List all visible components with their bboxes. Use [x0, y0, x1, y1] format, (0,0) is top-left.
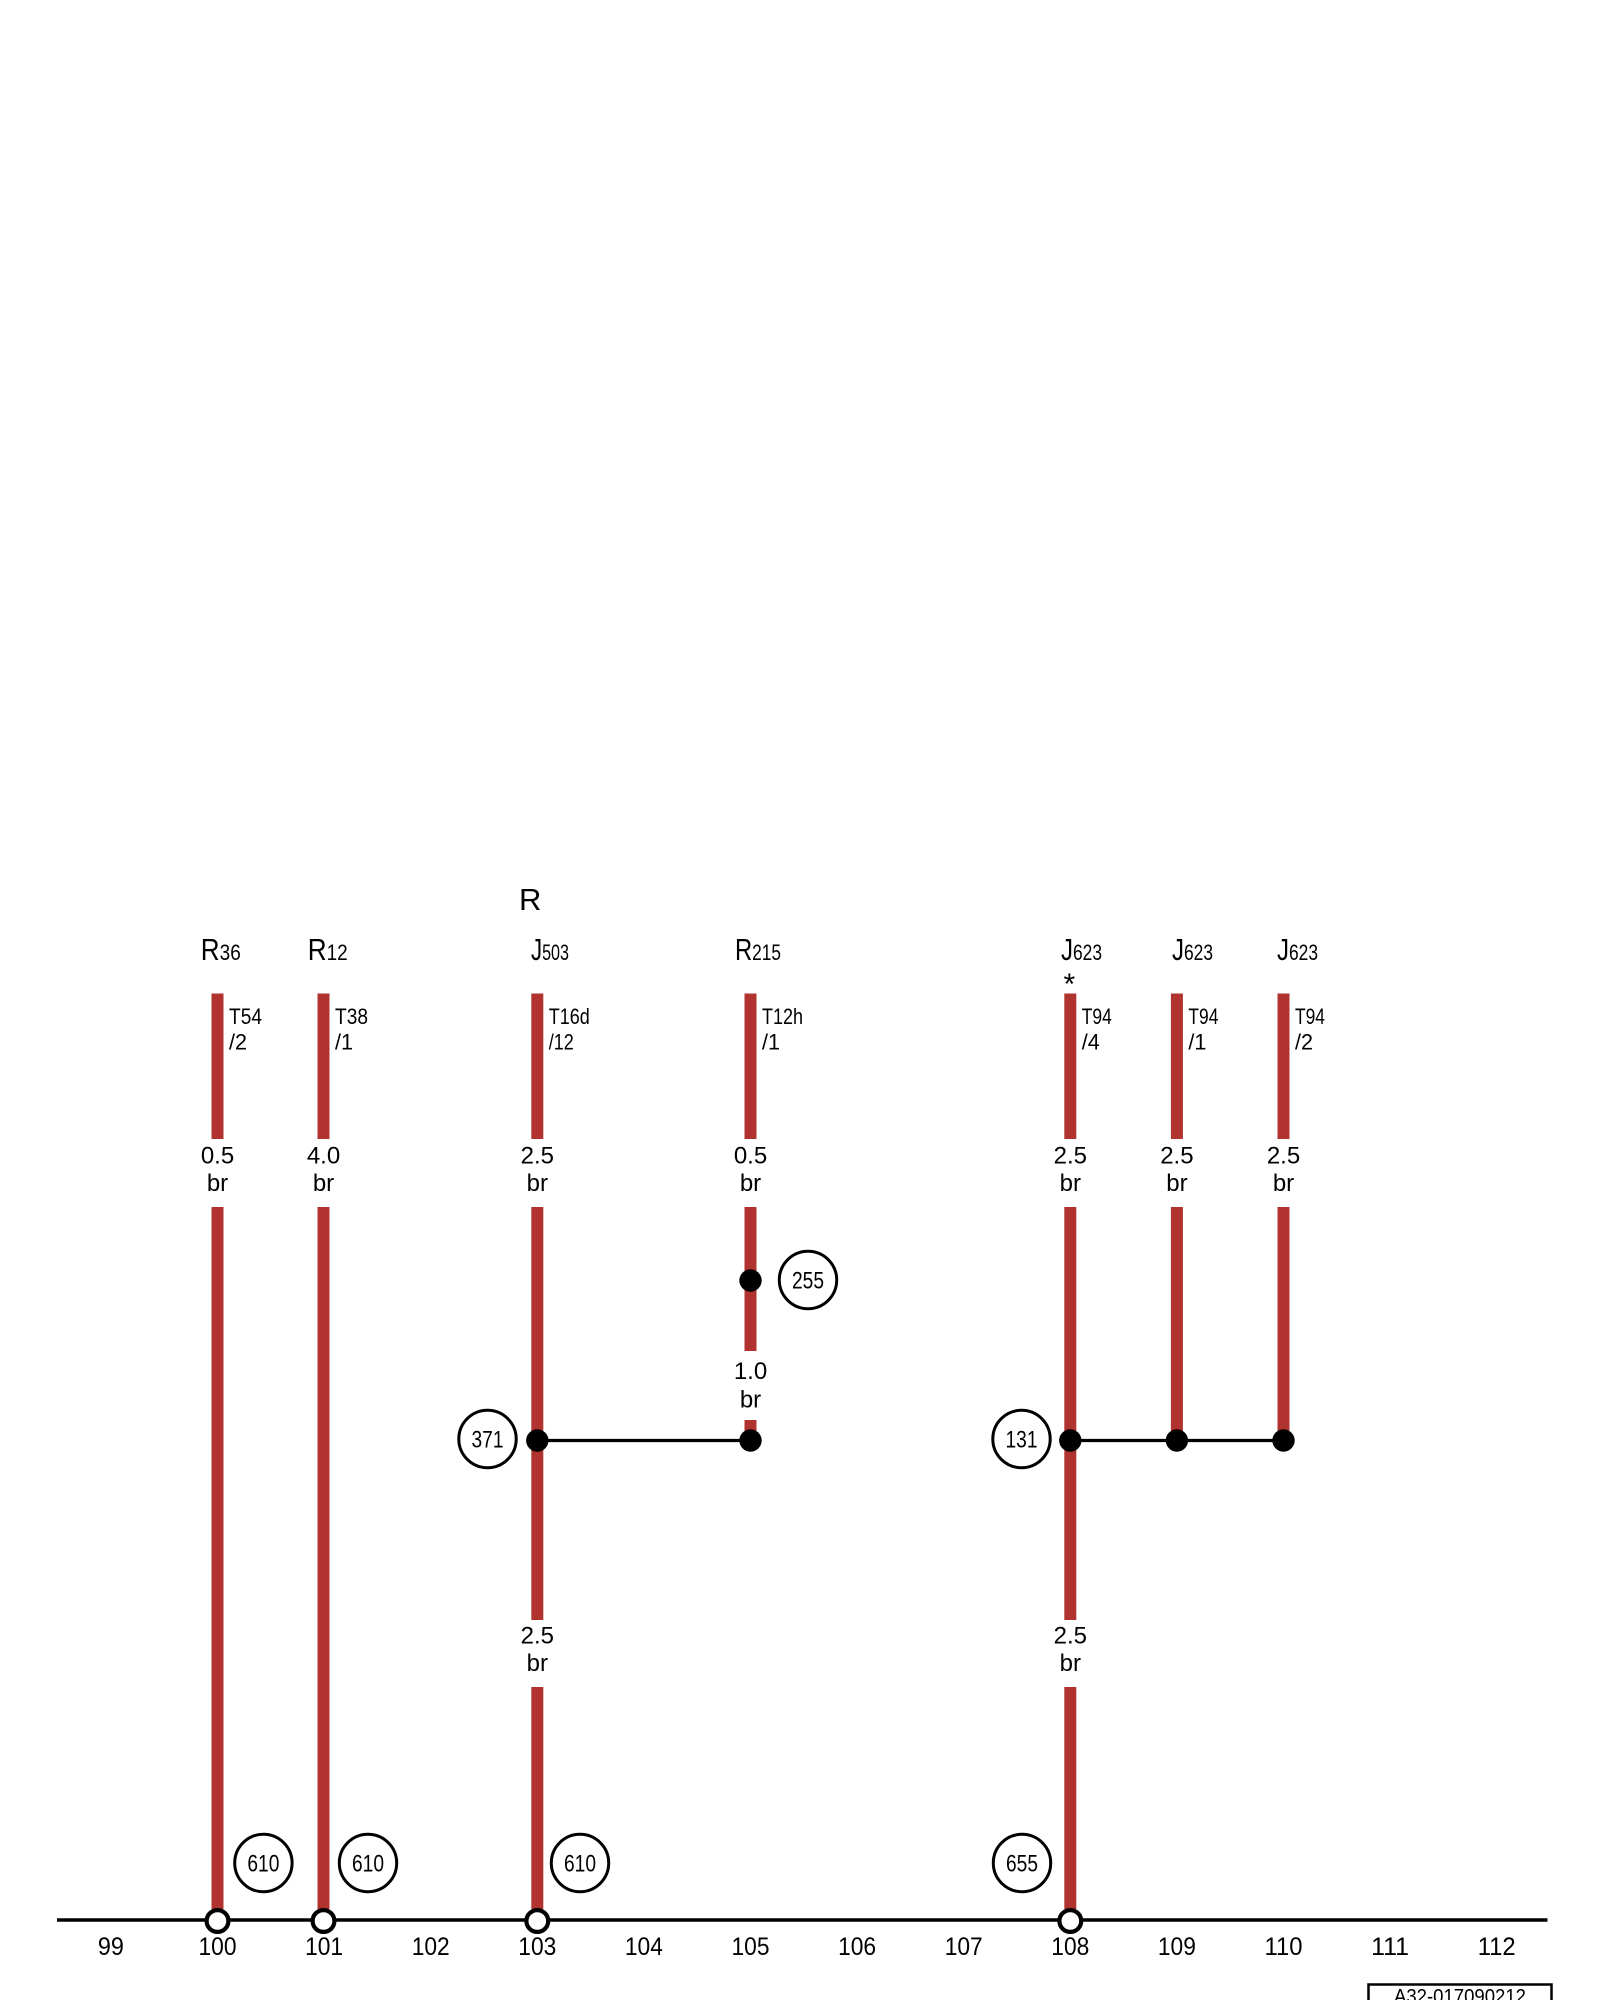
svg-text:104: 104	[625, 1933, 663, 1961]
svg-text:2.5: 2.5	[521, 1623, 554, 1650]
svg-text:br: br	[207, 1170, 228, 1197]
svg-text:107: 107	[945, 1933, 983, 1961]
svg-text:102: 102	[412, 1933, 450, 1961]
svg-text:101: 101	[305, 1933, 343, 1961]
svg-text:br: br	[740, 1170, 761, 1197]
svg-text:0.5: 0.5	[734, 1143, 767, 1170]
svg-text:br: br	[1060, 1170, 1081, 1197]
svg-text:T94: T94	[1082, 1004, 1112, 1029]
svg-text:br: br	[1273, 1170, 1294, 1197]
svg-text:655: 655	[1006, 1851, 1038, 1878]
svg-text:T38: T38	[335, 1004, 368, 1029]
svg-text:br: br	[740, 1387, 761, 1414]
svg-text:J503: J503	[531, 932, 569, 967]
svg-text:2.5: 2.5	[521, 1143, 554, 1170]
svg-text:100: 100	[199, 1933, 237, 1961]
svg-text:2.5: 2.5	[1054, 1623, 1087, 1650]
svg-text:106: 106	[838, 1933, 876, 1961]
svg-text:2.5: 2.5	[1267, 1143, 1300, 1170]
svg-text:T94: T94	[1295, 1004, 1325, 1029]
svg-text:105: 105	[732, 1933, 770, 1961]
svg-text:610: 610	[564, 1851, 596, 1878]
svg-text:610: 610	[352, 1851, 384, 1878]
svg-text:A32-017090212: A32-017090212	[1394, 1986, 1526, 2000]
svg-text:R215: R215	[735, 932, 781, 967]
svg-text:131: 131	[1006, 1427, 1038, 1454]
svg-text:J623: J623	[1061, 932, 1102, 967]
svg-text:T54: T54	[229, 1004, 262, 1029]
svg-text:br: br	[1060, 1650, 1081, 1677]
svg-text:/12: /12	[549, 1030, 574, 1055]
svg-text:/4: /4	[1082, 1030, 1100, 1055]
svg-text:2.5: 2.5	[1054, 1143, 1087, 1170]
svg-text:108: 108	[1051, 1933, 1089, 1961]
svg-text:/1: /1	[762, 1030, 780, 1055]
svg-text:T94: T94	[1188, 1004, 1218, 1029]
svg-text:99: 99	[98, 1933, 124, 1961]
svg-text:br: br	[1166, 1170, 1187, 1197]
svg-text:2.5: 2.5	[1160, 1143, 1193, 1170]
svg-text:T12h: T12h	[762, 1004, 803, 1029]
svg-text:255: 255	[792, 1268, 824, 1295]
svg-text:112: 112	[1478, 1933, 1516, 1961]
svg-text:T16d: T16d	[549, 1004, 590, 1029]
svg-text:1.0: 1.0	[734, 1358, 767, 1385]
svg-text:R: R	[519, 882, 541, 917]
svg-text:0.5: 0.5	[201, 1143, 234, 1170]
svg-text:/1: /1	[335, 1030, 353, 1055]
svg-text:br: br	[313, 1170, 334, 1197]
svg-text:br: br	[527, 1170, 548, 1197]
svg-text:br: br	[527, 1650, 548, 1677]
svg-text:R12: R12	[308, 932, 348, 967]
svg-text:109: 109	[1158, 1933, 1196, 1961]
svg-text:371: 371	[472, 1427, 504, 1454]
svg-text:/1: /1	[1188, 1030, 1206, 1055]
svg-text:J623: J623	[1277, 932, 1318, 967]
svg-text:610: 610	[247, 1851, 279, 1878]
svg-text:R36: R36	[201, 932, 241, 967]
svg-text:/2: /2	[229, 1030, 247, 1055]
svg-text:111: 111	[1371, 1933, 1409, 1961]
svg-text:/2: /2	[1295, 1030, 1313, 1055]
svg-text:J623: J623	[1172, 932, 1213, 967]
svg-text:*: *	[1064, 968, 1076, 1001]
svg-text:110: 110	[1265, 1933, 1303, 1961]
svg-text:103: 103	[518, 1933, 556, 1961]
svg-text:4.0: 4.0	[307, 1143, 340, 1170]
